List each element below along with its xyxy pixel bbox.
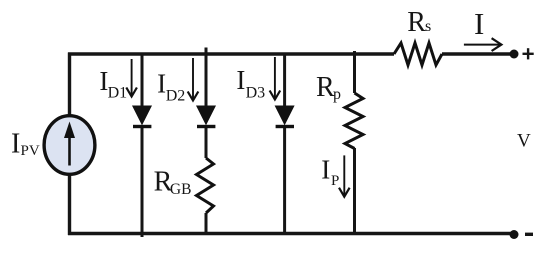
label IPV [11, 129, 40, 160]
label ID1 [99, 66, 127, 102]
plus sign [523, 48, 534, 59]
svg-text:V: V [517, 131, 531, 152]
wire top rail right segment [442, 52, 514, 56]
svg-text:p: p [333, 86, 341, 103]
svg-text:PV: PV [21, 143, 40, 159]
label I output [474, 6, 484, 41]
wire top rail left segment [68, 52, 394, 56]
svg-text:GB: GB [170, 181, 192, 198]
svg-text:I: I [321, 154, 330, 184]
svg-text:D3: D3 [246, 85, 266, 102]
svg-text:s: s [425, 18, 431, 35]
label RGB [154, 166, 192, 198]
arrow ID3 [270, 57, 281, 100]
terminal dot plus [510, 50, 519, 59]
svg-text:I: I [474, 6, 484, 41]
wire branch D2 [205, 48, 208, 236]
arrow IP [339, 155, 350, 196]
resistor Rs zigzag [394, 43, 442, 65]
minus sign [525, 233, 533, 236]
label Rp [316, 72, 341, 103]
label ID3 [236, 65, 265, 102]
resistor Rp zigzag [345, 93, 363, 149]
wire left rail lower [68, 173, 71, 235]
label ID2 [157, 69, 185, 105]
wire branch D1 [141, 53, 144, 238]
arrow ID1 [126, 59, 137, 97]
wire branch Rp [353, 51, 356, 235]
svg-text:D2: D2 [166, 87, 186, 104]
diode D2 [197, 106, 216, 128]
resistor RGB zigzag [197, 158, 214, 213]
label V [517, 131, 531, 152]
terminal dot minus [510, 230, 519, 239]
arrow ID2 [188, 58, 199, 101]
svg-text:P: P [331, 173, 339, 189]
svg-text:I: I [11, 129, 20, 160]
label Rs [407, 7, 431, 38]
svg-text:D1: D1 [108, 85, 128, 102]
label IP [321, 154, 339, 189]
wire left rail upper [68, 53, 71, 118]
arrow I output [464, 38, 502, 51]
diode D1 [133, 106, 152, 128]
svg-text:R: R [407, 7, 426, 38]
svg-text:I: I [236, 65, 245, 95]
wire branch D3 [283, 53, 286, 236]
diode D3 [275, 106, 294, 128]
wire bottom rail [68, 232, 514, 236]
current source U1 IPV [44, 116, 95, 175]
